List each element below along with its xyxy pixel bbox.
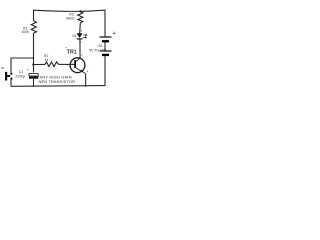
node S1 branch junction: [33, 57, 35, 59]
wire S1 branch horizontal: [11, 58, 34, 73]
wire battery to bottom: [104, 56, 106, 86]
svg-text:+: +: [27, 68, 29, 72]
wire C1 to bottom: [33, 79, 35, 86]
svg-text:2200µ: 2200µ: [15, 75, 25, 79]
svg-text:9V TO 12V: 9V TO 12V: [89, 49, 106, 53]
wire R3 to LED: [79, 23, 82, 34]
wire left rail: [33, 33, 35, 72]
svg-text:1k: 1k: [45, 58, 49, 62]
wire base rail: [33, 63, 45, 65]
capacitor C1: [29, 73, 38, 78]
wire R3 top: [79, 10, 81, 13]
svg-text:S1: S1: [1, 66, 5, 70]
wire top rail: [34, 10, 106, 37]
resistor R2: [45, 62, 59, 67]
svg-text:100k: 100k: [21, 30, 29, 34]
node emitter junction: [85, 85, 87, 87]
wire S1 to bottom: [10, 80, 12, 87]
svg-text:680Ω: 680Ω: [66, 16, 75, 20]
resistor R1: [31, 21, 36, 33]
svg-text:TR1: TR1: [67, 50, 77, 56]
wire LED to collector: [79, 40, 81, 59]
svg-text:NPN TRANSISTOR: NPN TRANSISTOR: [39, 79, 76, 84]
node R2 junction: [32, 63, 34, 65]
battery B1: [100, 37, 112, 56]
node R3 top junction: [79, 10, 81, 12]
pushbutton S1: [6, 72, 12, 81]
node C1 bottom junction: [33, 85, 35, 87]
wire emitter to bottom: [85, 74, 87, 86]
wire bottom rail: [11, 85, 105, 88]
resistor R3: [78, 12, 83, 23]
svg-text:D1: D1: [72, 34, 76, 38]
transistor TR1: [70, 58, 86, 74]
svg-text:B1: B1: [99, 44, 103, 48]
wire R2 to base: [59, 63, 75, 65]
LED D1: [77, 33, 88, 39]
svg-text:C1: C1: [19, 70, 23, 74]
svg-text:+: +: [113, 31, 116, 37]
